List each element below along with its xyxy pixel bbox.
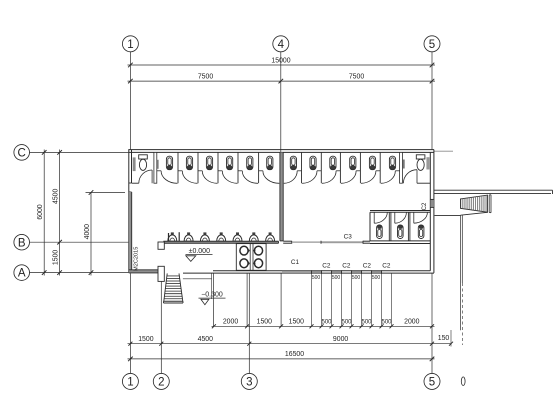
svg-text:1: 1 [127, 377, 133, 389]
svg-text:1500: 1500 [53, 250, 60, 265]
svg-text:500: 500 [341, 320, 352, 326]
svg-text:2: 2 [158, 377, 164, 389]
svg-text:9000: 9000 [333, 336, 348, 343]
svg-text:M2C2015: M2C2015 [134, 247, 140, 271]
svg-text:5: 5 [429, 377, 435, 389]
svg-text:C2: C2 [382, 262, 391, 269]
svg-text:−0.300: −0.300 [201, 292, 223, 299]
svg-text:500: 500 [312, 275, 321, 281]
svg-text:C2: C2 [342, 262, 351, 269]
svg-text:1500: 1500 [289, 319, 304, 326]
svg-text:150: 150 [438, 335, 450, 342]
svg-text:500: 500 [381, 320, 392, 326]
svg-text:1500: 1500 [257, 319, 272, 326]
svg-text:6000: 6000 [37, 204, 44, 219]
svg-text:C: C [18, 148, 26, 160]
svg-text:4: 4 [278, 39, 285, 51]
svg-text:A: A [18, 268, 26, 280]
svg-text:4000: 4000 [84, 224, 91, 239]
svg-text:B: B [18, 237, 26, 249]
svg-text:4500: 4500 [53, 188, 60, 203]
svg-text:7500: 7500 [198, 73, 213, 80]
svg-text:1: 1 [127, 39, 133, 51]
svg-text:500: 500 [321, 320, 332, 326]
svg-text:C3: C3 [344, 233, 353, 240]
svg-text:C1: C1 [291, 259, 300, 266]
svg-text:C2: C2 [422, 202, 428, 210]
svg-text:500: 500 [372, 275, 381, 281]
svg-text:15000: 15000 [271, 57, 290, 64]
svg-text:500: 500 [332, 275, 341, 281]
svg-text:C2: C2 [322, 262, 331, 269]
svg-text:C2: C2 [363, 262, 372, 269]
svg-text:3: 3 [246, 377, 252, 389]
svg-text:±0.000: ±0.000 [189, 248, 210, 255]
svg-text:500: 500 [361, 320, 372, 326]
svg-text:2000: 2000 [223, 319, 238, 326]
svg-text:5: 5 [429, 39, 435, 51]
svg-text:4500: 4500 [198, 336, 213, 343]
svg-text:2000: 2000 [404, 319, 419, 326]
svg-text:16500: 16500 [285, 351, 304, 358]
svg-text:7500: 7500 [349, 73, 364, 80]
svg-text:500: 500 [352, 275, 361, 281]
svg-text:1500: 1500 [138, 336, 153, 343]
